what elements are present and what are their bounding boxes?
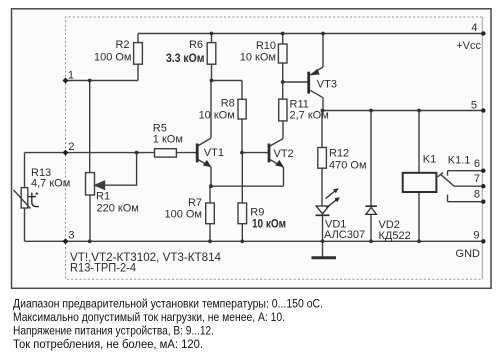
svg-text:10 кОм: 10 кОм [252,217,286,231]
svg-text:R8: R8 [221,98,235,110]
svg-text:5: 5 [471,100,477,112]
svg-text:10 кОм: 10 кОм [199,109,235,121]
svg-text:3: 3 [68,230,74,242]
svg-text:3.3 кОм: 3.3 кОм [166,51,205,65]
svg-text:GND: GND [456,248,481,260]
svg-text:2,7 кОм: 2,7 кОм [290,110,329,122]
svg-text:VT2: VT2 [274,148,294,160]
svg-text:VT1: VT1 [204,147,224,159]
svg-text:7: 7 [474,173,480,185]
svg-text:Напряжение питания устройства,: Напряжение питания устройства, В: 9...12… [13,324,214,338]
svg-text:8: 8 [474,189,480,201]
svg-text:R2: R2 [115,39,129,51]
svg-text:9: 9 [473,230,479,242]
svg-text:R6: R6 [189,39,203,51]
svg-text:220 кОм: 220 кОм [97,202,139,214]
svg-text:R1: R1 [96,191,110,203]
svg-text:1: 1 [68,70,74,82]
svg-text:10 кОм: 10 кОм [240,52,276,64]
svg-text:4,7 кОм: 4,7 кОм [31,178,70,190]
svg-text:R13-ТРП-2-4: R13-ТРП-2-4 [70,261,136,275]
svg-text:Максимально допустимый ток наг: Максимально допустимый ток нагрузки, не … [13,310,285,324]
svg-text:+Vcc: +Vcc [456,40,481,52]
svg-text:Диапазон предварительной устан: Диапазон предварительной установки темпе… [13,297,323,311]
svg-text:6: 6 [474,158,480,170]
svg-text:100 Ом: 100 Ом [164,208,202,220]
svg-text:4: 4 [471,22,477,34]
svg-text:R7: R7 [188,197,202,209]
svg-text:VT3: VT3 [317,78,337,90]
svg-text:K1: K1 [423,154,436,166]
svg-text:АЛС307: АЛС307 [324,229,365,241]
svg-text:2: 2 [68,141,74,153]
svg-text:470 Ом: 470 Ом [329,159,367,171]
svg-text:1 кОм: 1 кОм [153,133,183,145]
svg-text:100 Ом: 100 Ом [94,52,132,64]
svg-text:R10: R10 [256,40,276,52]
svg-text:КД522: КД522 [379,230,411,242]
svg-text:Ток потребления, не более, мА:: Ток потребления, не более, мА: 120. [13,337,203,351]
svg-text:K1.1: K1.1 [448,155,471,167]
svg-text:R12: R12 [329,148,349,160]
